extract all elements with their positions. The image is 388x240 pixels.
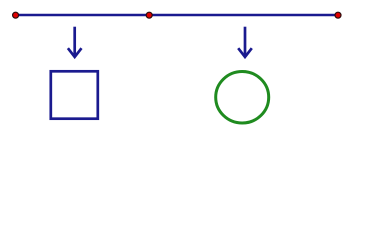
node C xyxy=(335,12,341,18)
arrow 1 xyxy=(68,27,82,57)
arrow 2 xyxy=(238,27,252,57)
square xyxy=(51,71,98,118)
wire xyxy=(16,14,339,17)
node A xyxy=(13,12,19,18)
node B xyxy=(146,12,152,18)
circle xyxy=(216,72,269,124)
